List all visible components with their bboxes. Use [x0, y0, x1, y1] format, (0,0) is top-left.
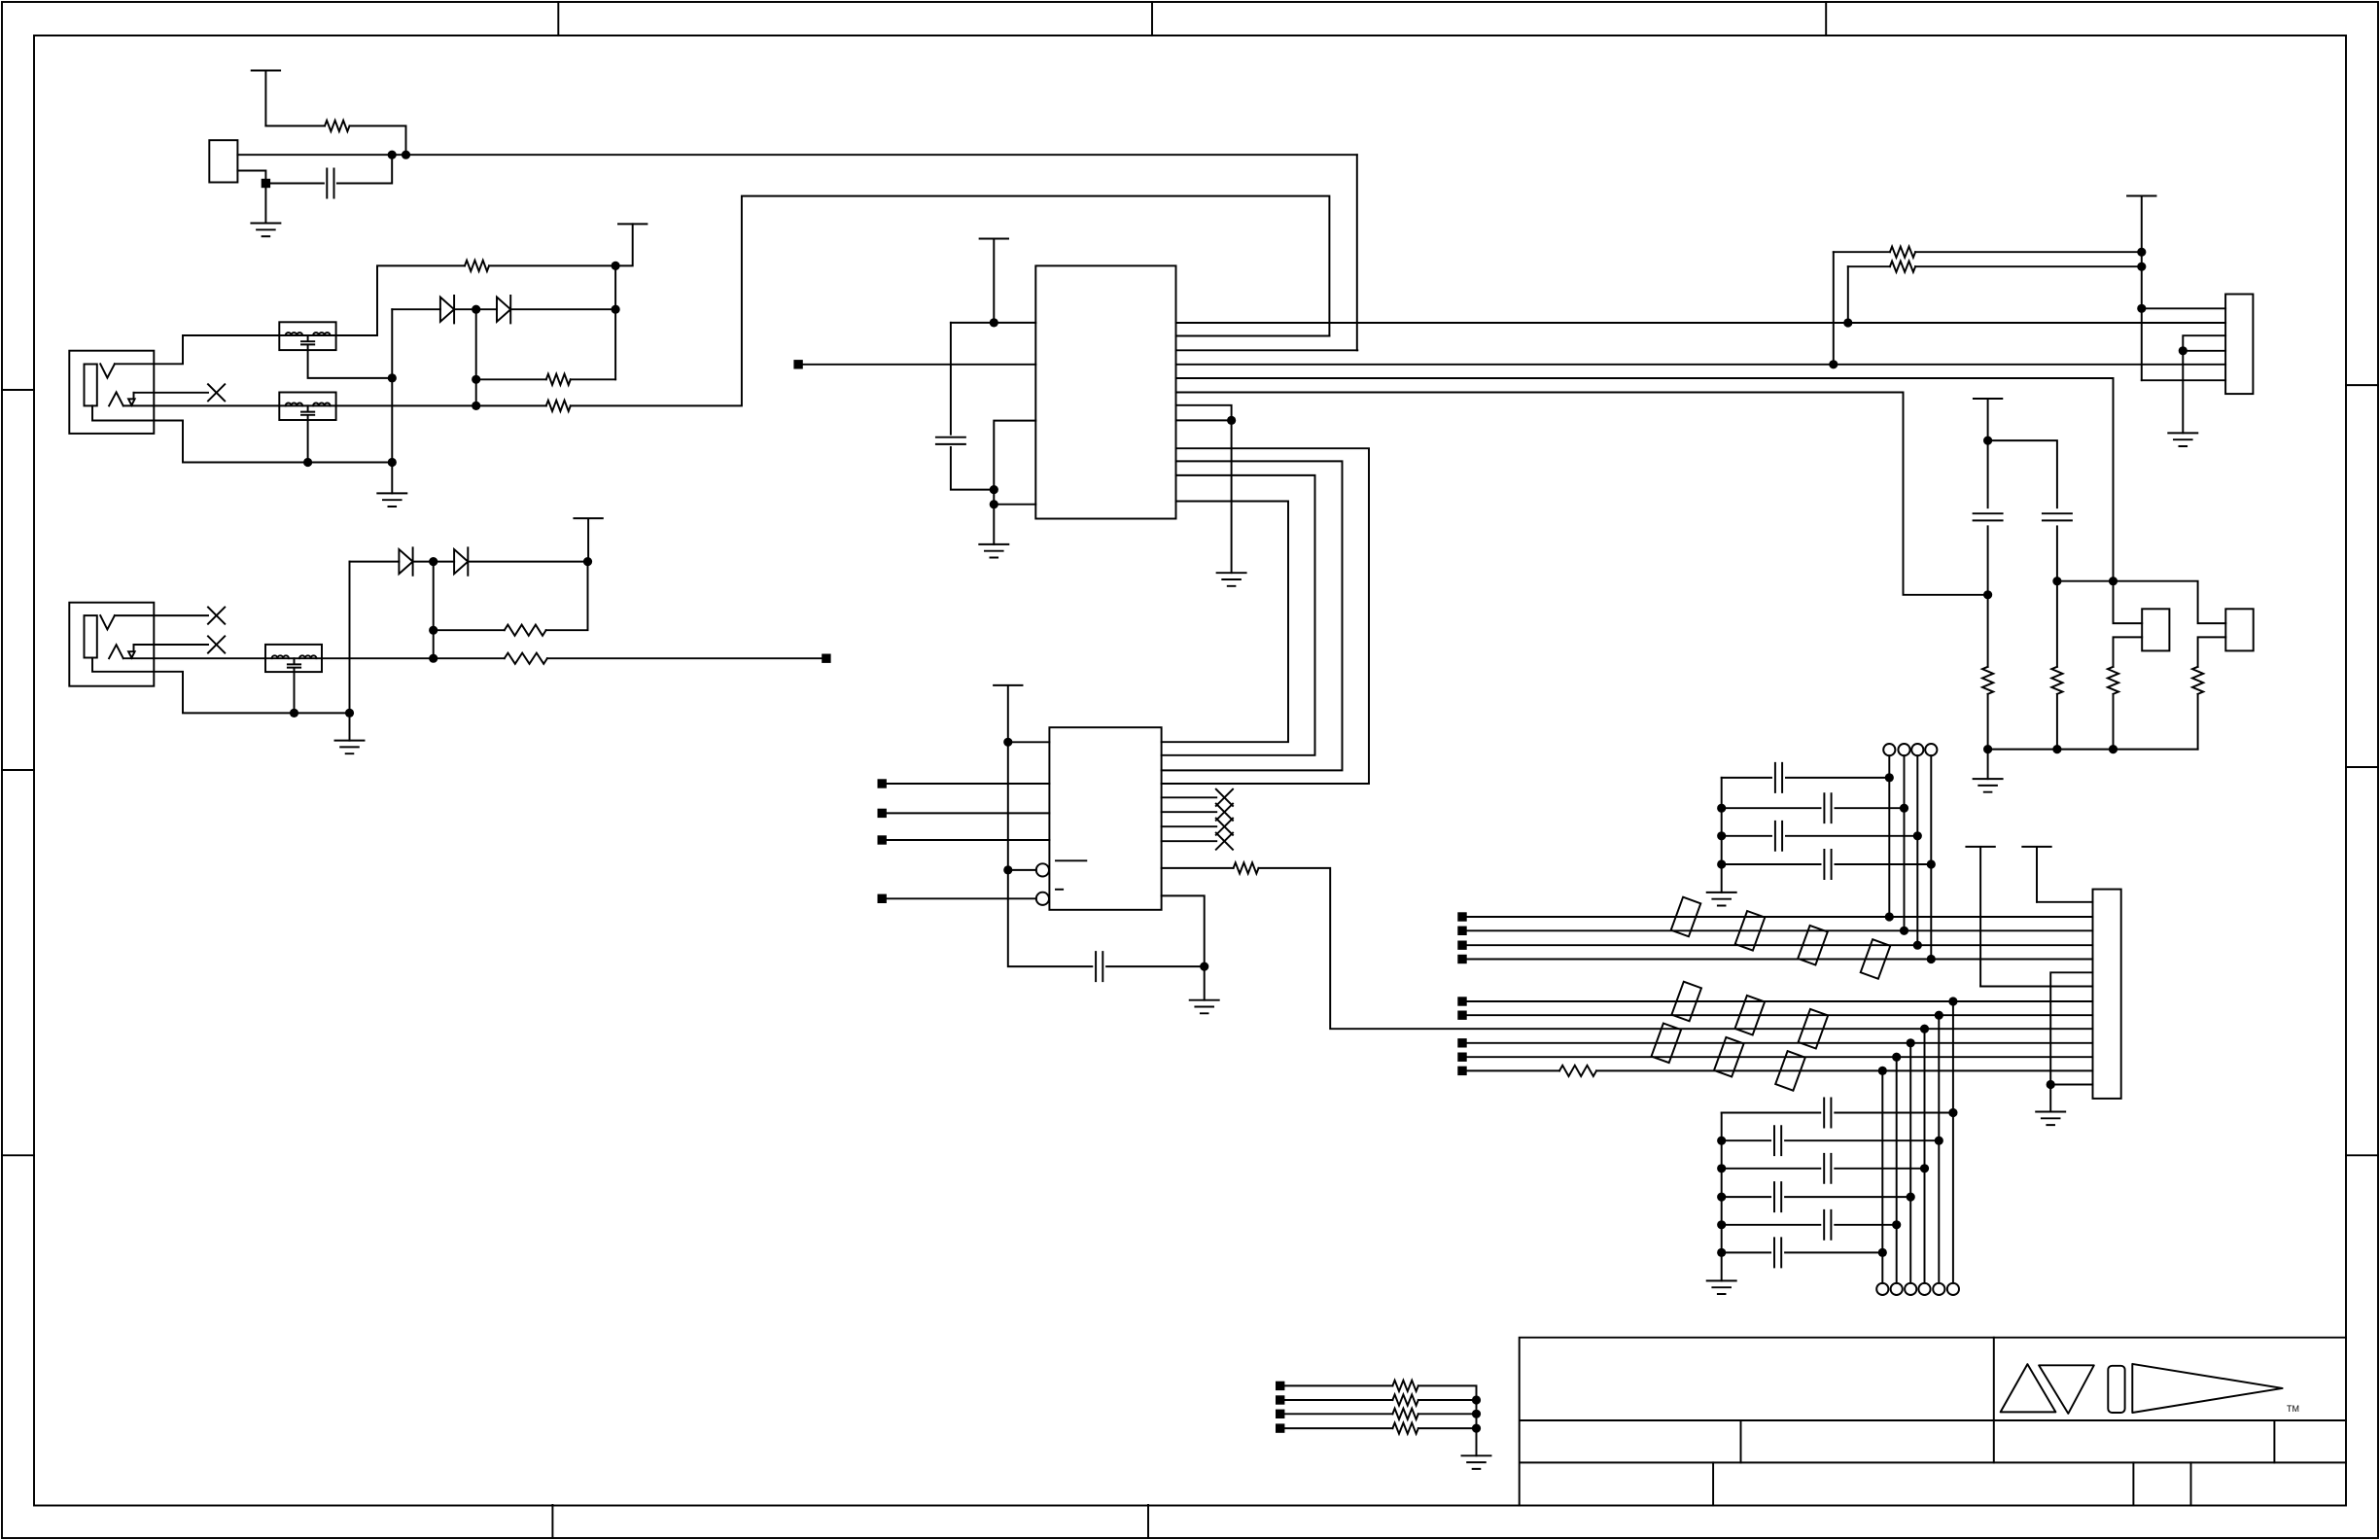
- title block divider row3 b: [2132, 1462, 2134, 1505]
- junction: [429, 654, 437, 663]
- wire J3 p14: [2050, 1084, 2092, 1086]
- wire: [950, 323, 952, 435]
- junction: [388, 373, 397, 382]
- component X1 (box): [2142, 609, 2169, 650]
- resistor R10: [1982, 667, 1993, 694]
- wire: [1833, 252, 1835, 365]
- wire: [2142, 379, 2225, 381]
- wire: [1722, 1168, 1821, 1170]
- junction: [472, 305, 480, 314]
- border tick right 3: [2346, 1154, 2378, 1156]
- junction: [1717, 1137, 1726, 1145]
- junction on U2 out: [1920, 1025, 1929, 1033]
- crystal Y1: [209, 140, 237, 182]
- junction: [1927, 859, 1936, 868]
- capacitor C9: [1824, 850, 1831, 879]
- resistor R3: [546, 374, 571, 385]
- wire: [571, 378, 615, 380]
- connector J4: [2225, 295, 2253, 395]
- wire bus A3: [1467, 944, 2093, 946]
- wire: [2056, 526, 2058, 580]
- wire: [475, 309, 477, 405]
- wire U1 p7 gnd: [1176, 405, 1232, 573]
- wire U2 n/c pin: [1162, 811, 1217, 813]
- junction: [1472, 1424, 1481, 1433]
- wire: [1785, 1139, 1939, 1141]
- capacitor C13: [1774, 1182, 1781, 1211]
- testpoint TP9: [1891, 1283, 1903, 1295]
- wire: [350, 561, 400, 563]
- wire: [2198, 637, 2226, 666]
- wire: [887, 812, 1050, 814]
- junction: [1878, 1248, 1887, 1257]
- capacitor C3: [1096, 952, 1102, 981]
- wire: [2114, 581, 2143, 623]
- junction: [1900, 804, 1908, 813]
- connector J3: [2093, 890, 2121, 1099]
- resistor R5: [505, 653, 547, 664]
- connector J1 jack body: [69, 351, 154, 434]
- wire: [994, 504, 1035, 506]
- wire: [951, 447, 994, 490]
- wire gnd rail J1: [391, 309, 393, 493]
- wire: [1785, 1196, 1910, 1198]
- wire through FB1: [279, 334, 335, 336]
- logo AVID bar I: [2108, 1366, 2124, 1413]
- wire: [1834, 251, 1890, 253]
- wire: [322, 657, 505, 659]
- junction: [1843, 318, 1852, 327]
- junction: [612, 305, 620, 314]
- testpoint TP8: [1905, 1283, 1916, 1295]
- wire: [1987, 526, 1989, 594]
- ferrite bead FB7: [1861, 939, 1891, 979]
- no-connect X (U2 pin 1): [1216, 789, 1233, 806]
- port (U2 in B): [878, 809, 887, 818]
- border tick top 1: [557, 2, 559, 36]
- capacitor C8: [1775, 822, 1782, 851]
- wire: [1722, 777, 1771, 779]
- wire: [1284, 1427, 1392, 1429]
- component X2 (box): [2225, 609, 2253, 650]
- junction: [1935, 1011, 1943, 1020]
- wire: [887, 897, 1036, 899]
- wire: [1987, 595, 1989, 667]
- junction: [1829, 360, 1837, 368]
- wire: [614, 265, 616, 379]
- junction: [2052, 577, 2061, 585]
- U2 pin name overline 1: [1056, 859, 1086, 861]
- wire: [1836, 863, 1932, 865]
- capacitor C12: [1824, 1154, 1831, 1183]
- wire bus B5: [1467, 1056, 2093, 1058]
- ground (cap bank 1): [1707, 892, 1736, 906]
- junction: [990, 318, 998, 327]
- wire J2 sleeve: [123, 657, 265, 659]
- connector J2 jack body: [69, 603, 154, 686]
- title block frame: [1520, 1338, 2346, 1506]
- junction: [1892, 1053, 1901, 1062]
- wire: [1848, 265, 1890, 267]
- border tick left 2: [2, 769, 34, 771]
- wire U1 p12 to U2: [1162, 502, 1288, 743]
- wire through FB3: [265, 657, 322, 659]
- resistor R15: [1392, 1381, 1417, 1391]
- U2 pin name overline 2: [1056, 889, 1063, 891]
- resistor R7: [1234, 862, 1259, 873]
- junction: [1920, 1164, 1929, 1172]
- wire: [1786, 835, 1917, 837]
- port (U2 in C): [878, 835, 887, 844]
- ground (crystal): [251, 224, 280, 237]
- jack J1 ring contact: [109, 392, 123, 405]
- wire: [264, 184, 266, 224]
- ferrite bead FB9: [1735, 996, 1766, 1035]
- wire: [1896, 1057, 1898, 1283]
- wire: [1952, 1001, 1954, 1283]
- testpoint TP1: [1883, 744, 1895, 755]
- power symbol +V (crystal): [252, 71, 280, 126]
- wire to U1: [571, 196, 1330, 406]
- wire: [265, 125, 325, 127]
- junction: [1717, 1248, 1726, 1257]
- wire: [1987, 694, 1989, 779]
- port (bus A2): [1457, 927, 1466, 935]
- wire: [1722, 1224, 1821, 1226]
- junction: [402, 151, 410, 159]
- junction: [429, 557, 437, 566]
- wire: [1786, 777, 1889, 779]
- junction: [1948, 997, 1957, 1005]
- wire: [1418, 1399, 1477, 1401]
- ground (J3): [2036, 1112, 2065, 1126]
- logo TM text: [2287, 1404, 2299, 1414]
- junction: [990, 500, 998, 508]
- junction: [429, 626, 437, 635]
- junction: [345, 709, 354, 717]
- ferrite bead FB4: [1671, 897, 1701, 937]
- logo AVID triangle D: [2132, 1364, 2282, 1413]
- junction: [303, 458, 312, 467]
- wire: [2056, 694, 2058, 750]
- port (bus B5): [1457, 1053, 1466, 1062]
- wire: [392, 308, 440, 310]
- power symbol +V (J4 pullups): [2127, 196, 2155, 381]
- power symbol +V (U2): [994, 685, 1022, 742]
- wire: [1888, 755, 1890, 917]
- port (bus A1): [1457, 912, 1466, 921]
- junction: [1907, 1193, 1915, 1202]
- capacitor C2: [936, 437, 965, 444]
- title block divider row2 a: [1740, 1420, 1742, 1462]
- junction: [1472, 1395, 1481, 1404]
- junction: [472, 402, 480, 410]
- ferrite bead FB6: [1798, 926, 1828, 965]
- wire: [2142, 307, 2225, 309]
- wire XTAL out: [237, 154, 1356, 156]
- no-connect X (U2 pin 4): [1216, 833, 1233, 850]
- ground (J1): [377, 493, 406, 507]
- testpoint TP3: [1911, 744, 1923, 755]
- wire to port: [547, 657, 822, 659]
- ground (cap bank 2): [1707, 1280, 1736, 1294]
- junction: [1913, 831, 1922, 840]
- wire U2 n/c pin: [1162, 825, 1217, 827]
- port (input to U1): [793, 360, 802, 368]
- wire FB1 cap to gnd net: [308, 350, 393, 378]
- wire: [1284, 1384, 1392, 1386]
- ground (terminators): [1462, 1455, 1491, 1469]
- junction: [1913, 941, 1922, 950]
- wire J4 gnd: [2183, 335, 2225, 433]
- junction: [1227, 416, 1236, 425]
- wire: [1938, 1015, 1940, 1283]
- wire J2 ring n/c: [134, 644, 209, 646]
- wire: [454, 308, 497, 310]
- no-connect X (J2 ring): [208, 636, 225, 652]
- junction: [1900, 927, 1908, 935]
- wire to U1 pin: [1356, 155, 1358, 350]
- IC U1: [1035, 265, 1175, 518]
- IC U2: [1049, 727, 1161, 910]
- power symbol +V (J3 b): [1966, 847, 1994, 987]
- wire J2 tip n/c: [115, 614, 208, 616]
- EMI filter FB3: [265, 645, 322, 672]
- capacitor C6: [1775, 763, 1782, 792]
- EMI filter FB1: [279, 322, 335, 350]
- wire gnd rail J2: [349, 562, 351, 741]
- U2 inverted pin bubble 1: [1036, 863, 1049, 876]
- junction: [1717, 1193, 1726, 1202]
- wire: [476, 378, 546, 380]
- wire: [546, 562, 588, 631]
- wire: [1836, 807, 1905, 809]
- diode D4: [454, 547, 468, 575]
- testpoint TP2: [1898, 744, 1909, 755]
- junction: [1472, 1410, 1481, 1418]
- wire: [2114, 637, 2143, 666]
- ferrite bead FB12: [1714, 1037, 1744, 1077]
- jack J2 tip contact: [100, 615, 115, 629]
- EMI filter FB2: [279, 393, 335, 421]
- wire U2 n/c pin: [1162, 796, 1217, 798]
- no-connect X (U2 pin 2): [1216, 804, 1233, 821]
- junction: [290, 709, 298, 717]
- wire: [1284, 1413, 1392, 1415]
- wire: [1722, 807, 1821, 809]
- power symbol +V (J2): [574, 518, 602, 562]
- junction: [388, 458, 397, 467]
- capacitor C7: [1824, 793, 1831, 822]
- junction: [262, 179, 270, 188]
- junction: [2047, 1080, 2055, 1089]
- wire: [1835, 1112, 1953, 1114]
- wire: [1988, 440, 2057, 507]
- junction: [2052, 745, 2061, 753]
- port (bus B1): [1457, 997, 1466, 1005]
- port (bus B4): [1457, 1038, 1466, 1047]
- wire bus B6: [1596, 1069, 2093, 1071]
- wire: [489, 224, 633, 265]
- junction: [1003, 865, 1012, 874]
- wire: [468, 561, 587, 563]
- ground (J4): [2168, 433, 2197, 446]
- wire: [887, 839, 1050, 841]
- wire: [1930, 755, 1932, 959]
- wire cap bank 2 rail: [1721, 1113, 1723, 1281]
- junction: [2179, 346, 2187, 355]
- wire J3 p7: [1980, 986, 2092, 988]
- junction: [1717, 804, 1726, 813]
- wire: [1106, 965, 1205, 967]
- wire: [476, 404, 546, 406]
- wire: [1909, 1043, 1911, 1283]
- junction: [1717, 1164, 1726, 1172]
- junction: [2137, 304, 2146, 313]
- resistor R9: [1890, 262, 1915, 272]
- wire U2 out long: [1259, 868, 2093, 1029]
- capacitor C11: [1774, 1126, 1781, 1155]
- resistor R4: [546, 401, 571, 411]
- power symbol +V (J3 a): [2022, 847, 2050, 902]
- jack J1 tip contact: [100, 364, 115, 377]
- wire: [2049, 1085, 2051, 1112]
- port (bus B6): [1457, 1067, 1466, 1075]
- wire U1 p6: [1176, 393, 1988, 595]
- ground (U2): [1190, 1000, 1219, 1014]
- wire: [265, 183, 324, 185]
- capacitor C4: [1974, 513, 2003, 520]
- junction: [1935, 1137, 1943, 1145]
- wire cap bank rail: [1721, 778, 1723, 892]
- junction: [1200, 962, 1208, 971]
- wire U1 p2: [1176, 335, 1330, 337]
- port (term 1): [1276, 1382, 1284, 1390]
- wire: [1722, 1112, 1821, 1114]
- resistor R14: [1559, 1066, 1596, 1076]
- wire: [1722, 863, 1821, 865]
- wire U1 gnd: [994, 421, 1035, 544]
- border tick top 2: [1151, 2, 1153, 36]
- diode D3: [399, 547, 412, 575]
- diode D2: [497, 296, 510, 323]
- resistor R6: [505, 625, 546, 636]
- port (bus A4): [1457, 955, 1466, 963]
- wire U1 p8: [1176, 419, 1232, 421]
- power symbol +V (bias): [1974, 399, 2002, 507]
- wire: [1284, 1399, 1392, 1401]
- wire FB2 cap stub: [307, 420, 309, 463]
- diode D1: [440, 296, 454, 323]
- wire: [1785, 1251, 1882, 1253]
- title block divider row2 b: [2273, 1420, 2275, 1462]
- capacitor C5: [2043, 513, 2072, 520]
- wire J3 p6 gnd: [2050, 972, 2092, 1084]
- wire: [237, 171, 265, 184]
- resistor R13: [2192, 667, 2203, 694]
- junction: [1885, 773, 1894, 782]
- svg-text:TM: TM: [2287, 1404, 2299, 1414]
- resistor R18: [1392, 1423, 1417, 1434]
- wire U1 p5: [1176, 378, 2114, 581]
- junction: [583, 557, 592, 566]
- wire: [433, 562, 435, 659]
- border tick bottom 2: [1147, 1505, 1149, 1538]
- capacitor C1: [327, 169, 333, 198]
- wire U1 p3: [1176, 349, 1358, 351]
- logo AVID triangle V: [2039, 1365, 2094, 1414]
- wire U2 n/c pin: [1162, 840, 1217, 842]
- wire: [1467, 1069, 1559, 1071]
- jack J2 switch contact: [128, 645, 135, 658]
- junction: [1892, 1220, 1901, 1229]
- resistor R12: [2108, 667, 2118, 694]
- border tick left 1: [2, 389, 34, 391]
- testpoint TP6: [1933, 1283, 1944, 1295]
- wire J1 ring n/c: [134, 392, 209, 394]
- wire U1 p10 to U2: [1162, 461, 1343, 770]
- wire: [2057, 581, 2225, 623]
- border tick top 3: [1825, 2, 1827, 36]
- ferrite bead FB11: [1652, 1024, 1682, 1064]
- wire bus B1: [1467, 1000, 2093, 1002]
- junction: [612, 262, 620, 270]
- wire port to U1: [803, 364, 1036, 366]
- wire bus A1: [1467, 916, 2093, 918]
- wire: [510, 308, 615, 310]
- wire: [1162, 867, 1234, 869]
- junction: [1927, 955, 1936, 963]
- port (bus A3): [1457, 941, 1466, 950]
- wire: [1722, 835, 1771, 837]
- testpoint TP10: [1876, 1283, 1888, 1295]
- junction: [1878, 1067, 1887, 1075]
- power symbol +V (U1): [980, 239, 1008, 323]
- junction: [388, 151, 397, 159]
- wire: [434, 629, 505, 631]
- wire U1 p1 long: [1176, 322, 2226, 324]
- port (term 3): [1276, 1410, 1284, 1418]
- wire bias bottom rail: [1988, 749, 2198, 751]
- port (U2 in A): [878, 779, 887, 787]
- wire: [336, 404, 476, 406]
- junction: [2109, 577, 2117, 585]
- testpoint TP4: [1925, 744, 1937, 755]
- resistor R11: [2051, 667, 2062, 694]
- junction: [1983, 590, 1992, 599]
- no-connect X (J1 ring): [208, 384, 225, 401]
- border tick left 3: [2, 1154, 34, 1156]
- wire: [1915, 251, 2142, 253]
- title block divider row3 c: [2190, 1462, 2192, 1505]
- port (term 2): [1276, 1395, 1284, 1404]
- wire U1 VDD: [951, 322, 1035, 324]
- wire J2 shield loop: [92, 658, 350, 714]
- border tick right 2: [2346, 766, 2378, 768]
- wire: [1722, 1139, 1770, 1141]
- ground (J2): [335, 741, 365, 754]
- port (term 4): [1276, 1423, 1284, 1432]
- power symbol +V (J1): [618, 223, 647, 225]
- wire U2 VDD: [1008, 741, 1050, 743]
- jack J2 ring contact: [109, 645, 123, 658]
- junction: [990, 485, 998, 494]
- wire: [1915, 265, 2142, 267]
- wire U2 power rail down: [1008, 742, 1093, 966]
- wire J1 tip: [115, 335, 279, 364]
- junction: [1717, 1220, 1726, 1229]
- wire through FB2: [279, 404, 335, 406]
